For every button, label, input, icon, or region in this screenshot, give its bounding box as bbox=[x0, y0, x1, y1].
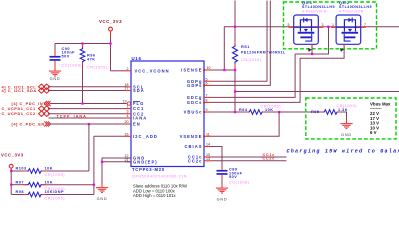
provider FETs green dashed box bbox=[284, 2, 377, 49]
svg-text:50V: 50V bbox=[229, 175, 237, 179]
junction top at VCC bbox=[109, 42, 111, 44]
svg-text:4: 4 bbox=[127, 114, 129, 118]
svg-text:GND: GND bbox=[217, 198, 228, 202]
svg-text:GND: GND bbox=[341, 133, 352, 137]
svg-text:10: 10 bbox=[207, 66, 211, 70]
resistor R95 1.3K bbox=[311, 104, 357, 123]
wire VCC_3V3 vertical to pin 2 bbox=[110, 31, 112, 71]
net label C_I2C1_SCL bbox=[2, 84, 50, 89]
junction rail at RS1 bbox=[234, 26, 236, 28]
svg-text:GDCs: GDCs bbox=[187, 100, 203, 105]
svg-text:CC2c: CC2c bbox=[188, 158, 203, 163]
transistor Q3-1 STL40DN3LLH5 bbox=[289, 1, 335, 54]
svg-text:RS1: RS1 bbox=[241, 45, 250, 49]
svg-text:ISENSE: ISENSE bbox=[181, 68, 202, 73]
junction R97/R98 tie bbox=[93, 184, 95, 186]
wire CBIAS pin 14 bbox=[211, 147, 223, 170]
red component pin leads bbox=[11, 31, 346, 194]
junction ISENSE at RS1 bottom bbox=[234, 69, 236, 71]
transistor Q3-2 STL40DN3LLH5 bbox=[331, 1, 372, 48]
svg-text:7: 7 bbox=[364, 23, 367, 27]
IC FLG overline bbox=[133, 100, 140, 103]
svg-text:VCC_VCONN: VCC_VCONN bbox=[135, 68, 170, 73]
junction R96 on INT bbox=[81, 102, 83, 104]
svg-text:PE1206FRM7W0R01L: PE1206FRM7W0R01L bbox=[241, 51, 286, 55]
wire pin2 horizontal bbox=[111, 70, 126, 72]
svg-text:GND: GND bbox=[50, 77, 61, 81]
svg-text:10K: 10K bbox=[265, 108, 273, 112]
no-connect arrow marks at FET bottom pins bbox=[308, 48, 312, 52]
svg-text:U16: U16 bbox=[132, 56, 142, 61]
svg-text:R98: R98 bbox=[16, 190, 24, 194]
resistor R96 47K pull-up bbox=[80, 44, 107, 104]
net label C_PDC_EN bbox=[12, 122, 51, 127]
resistor R94 10K bbox=[239, 105, 324, 115]
wire ISENSE pin 10 bbox=[211, 69, 236, 71]
junction divider tap bbox=[278, 111, 280, 113]
svg-text:8: 8 bbox=[206, 99, 208, 103]
wire I2C_ADD bbox=[94, 135, 126, 137]
power flag VCC_3V3 (bottom-left) bbox=[1, 152, 24, 194]
IC right pin number dots bbox=[203, 69, 205, 137]
svg-text:VCC_3V3: VCC_3V3 bbox=[99, 19, 122, 24]
svg-text:7: 7 bbox=[206, 94, 208, 98]
svg-text:CR(1005): CR(1005) bbox=[261, 105, 282, 109]
svg-text:QFN50P400X400X80-21N: QFN50P400X400X80-21N bbox=[132, 174, 187, 178]
wire GDPg pin 5 up to top edge bbox=[211, 1, 268, 82]
svg-text:R103: R103 bbox=[16, 167, 27, 171]
svg-text:11: 11 bbox=[206, 133, 210, 137]
svg-text:CR(1005): CR(1005) bbox=[337, 104, 358, 108]
svg-text:10K: 10K bbox=[45, 167, 53, 171]
svg-text:3: 3 bbox=[322, 23, 325, 27]
svg-text:GDPs: GDPs bbox=[187, 83, 202, 88]
ground under IC bbox=[96, 187, 108, 201]
svg-text:TCPP03-M20: TCPP03-M20 bbox=[132, 167, 165, 172]
svg-text:20: 20 bbox=[125, 120, 129, 124]
junction VBUS at RS1 column bbox=[234, 90, 236, 92]
junction pin9 at RS1 column bbox=[234, 111, 236, 113]
svg-text:5: 5 bbox=[288, 23, 291, 27]
wire Q3-1 bottom node horizontal bbox=[295, 27, 328, 54]
ground under R95 bbox=[340, 123, 352, 137]
junction Q3-1 bottom pin bbox=[311, 53, 313, 55]
wire VBUS input vertical from top edge bbox=[234, 1, 236, 45]
svg-text:17: 17 bbox=[125, 87, 129, 91]
charging zone green dashed box bbox=[306, 98, 396, 139]
IC left pin stubs bbox=[125, 71, 131, 162]
svg-text:ADD High = 0110 101x: ADD High = 0110 101x bbox=[133, 193, 177, 198]
svg-text:1: 1 bbox=[332, 23, 335, 27]
ground under C90 bbox=[49, 71, 61, 82]
svg-text:1.3K: 1.3K bbox=[338, 108, 348, 112]
svg-text:47K: 47K bbox=[87, 58, 95, 62]
svg-text:R97: R97 bbox=[16, 180, 24, 184]
svg-text:IANA: IANA bbox=[133, 116, 147, 121]
net label C_UCPD1_CC2 bbox=[2, 111, 50, 116]
svg-text:CC2c: CC2c bbox=[263, 157, 276, 161]
svg-text:VSENSE: VSENSE bbox=[180, 134, 203, 139]
wire CC1c pin 15 bbox=[211, 156, 287, 158]
resistor R98 10K/DNP bbox=[11, 190, 94, 200]
svg-text:CC(1608): CC(1608) bbox=[229, 181, 250, 185]
junction VCC to R97 bbox=[10, 184, 12, 186]
wire rail jog to ISENSE bbox=[224, 27, 235, 70]
resistor R103 10K bbox=[11, 167, 89, 177]
svg-text:C_UCPD1_CC2: C_UCPD1_CC2 bbox=[2, 111, 36, 116]
svg-text:CR(1005): CR(1005) bbox=[87, 65, 108, 69]
svg-text:A-PowerVDFN: A-PowerVDFN bbox=[339, 9, 364, 13]
wire GDCs pin 8 to Q3-2 bottom node bbox=[211, 48, 345, 103]
ground wires from pins 12/21 bbox=[102, 158, 131, 187]
svg-text:CR(1005): CR(1005) bbox=[45, 197, 66, 201]
svg-text:2: 2 bbox=[127, 67, 129, 71]
IC U16 right pin names bbox=[180, 68, 203, 164]
svg-text:19: 19 bbox=[123, 100, 127, 104]
net label C_I2C1_SDA bbox=[2, 88, 50, 93]
wire VCC_3V3 horizontal top bbox=[55, 43, 111, 45]
IC left pin numbers bbox=[123, 67, 129, 162]
note Vbus Max table bbox=[370, 101, 391, 135]
wire GDCg pin 7 to Q3-1 source node bbox=[211, 54, 296, 97]
svg-text:[4] C_PDC_EN: [4] C_PDC_EN bbox=[12, 122, 45, 127]
svg-text:14: 14 bbox=[206, 143, 210, 147]
wire CC1 bbox=[48, 108, 126, 110]
junction EN to R103 bbox=[88, 123, 90, 125]
svg-text:Charging 15W wired to Galax: Charging 15W wired to Galax bbox=[287, 148, 399, 154]
svg-text:R94: R94 bbox=[239, 108, 248, 112]
wire VSENSE pin 11 to divider bbox=[211, 112, 280, 136]
svg-text:6 V: 6 V bbox=[370, 130, 377, 135]
wire CC2c pin 13 bbox=[211, 160, 287, 162]
svg-text:SDA: SDA bbox=[133, 88, 145, 93]
wire IANA bbox=[49, 117, 126, 119]
net label C_PDC_INT bbox=[12, 101, 51, 106]
wire EN bbox=[50, 123, 126, 125]
note slave address bbox=[133, 183, 187, 198]
svg-text:6: 6 bbox=[206, 82, 208, 86]
svg-text:50V: 50V bbox=[62, 55, 70, 59]
wire EN pulldown vertical bbox=[88, 124, 90, 171]
IC FLG pin bubble pin 19 bbox=[127, 102, 130, 105]
resistor RS1 sense bbox=[233, 45, 287, 113]
IC right pin stubs bbox=[204, 70, 211, 161]
wire VBUSc pin 9 bbox=[211, 111, 249, 113]
svg-text:I2C_ADD: I2C_ADD bbox=[133, 134, 158, 139]
svg-text:CC(1608): CC(1608) bbox=[62, 64, 83, 68]
junction top at R96 bbox=[81, 42, 83, 44]
wire SCL bbox=[48, 86, 126, 88]
svg-text:A-PowerVDFN: A-PowerVDFN bbox=[302, 9, 327, 13]
wire FLG/INT bbox=[50, 103, 127, 105]
svg-text:4] C_I2C1_SDA: 4] C_I2C1_SDA bbox=[2, 88, 37, 93]
svg-text:--------: -------- bbox=[370, 105, 382, 110]
net label C_UCPD1_CC1 bbox=[2, 106, 50, 111]
power flag VCC_3V3 (top) bbox=[99, 19, 122, 31]
svg-text:GND: GND bbox=[97, 197, 108, 201]
junction VCC to R103 bbox=[10, 170, 12, 172]
ground under C89 bbox=[216, 188, 228, 202]
junction GND pins bbox=[101, 161, 103, 163]
svg-text:VCC_3V3: VCC_3V3 bbox=[1, 152, 24, 157]
svg-text:13: 13 bbox=[206, 157, 210, 161]
svg-text:CBIAS: CBIAS bbox=[185, 144, 203, 149]
wire CC2 bbox=[48, 113, 126, 115]
svg-text:STL40DN3LLH5: STL40DN3LLH5 bbox=[339, 5, 372, 9]
svg-text:GND(EP): GND(EP) bbox=[133, 159, 158, 164]
junction rail between FETs bbox=[327, 26, 329, 28]
capacitor C89 bbox=[217, 168, 250, 188]
IC U16 TCPP03-M20 bbox=[131, 56, 204, 179]
svg-text:VBUSc: VBUSc bbox=[184, 110, 203, 115]
svg-text:R95: R95 bbox=[311, 110, 319, 114]
wire I2C_ADD vertical to R97 bbox=[93, 136, 95, 194]
wire rail to FETs bbox=[235, 26, 399, 28]
wire VBUS long to right edge bbox=[235, 91, 399, 93]
svg-text:9: 9 bbox=[206, 108, 208, 112]
junction ISENSE jog bbox=[223, 69, 225, 71]
svg-text:1: 1 bbox=[127, 105, 129, 109]
IC U16 left pin names bbox=[133, 68, 170, 164]
capacitor C90 bbox=[50, 44, 83, 71]
svg-text:10K: 10K bbox=[45, 180, 53, 184]
resistor R97 10K bbox=[11, 180, 94, 190]
svg-text:STL40DN3LLH5: STL40DN3LLH5 bbox=[302, 5, 335, 9]
svg-text:CR(1005): CR(1005) bbox=[45, 173, 66, 177]
wire GDPs pin 6 up to top edge bbox=[211, 1, 271, 86]
svg-text:EN: EN bbox=[133, 122, 141, 127]
svg-text:10K/DNP: 10K/DNP bbox=[45, 190, 65, 194]
svg-text:16: 16 bbox=[125, 132, 129, 136]
wire SDA bbox=[48, 90, 126, 92]
svg-text:CR(3216): CR(3216) bbox=[241, 58, 262, 62]
IC right pin numbers bbox=[206, 66, 211, 161]
